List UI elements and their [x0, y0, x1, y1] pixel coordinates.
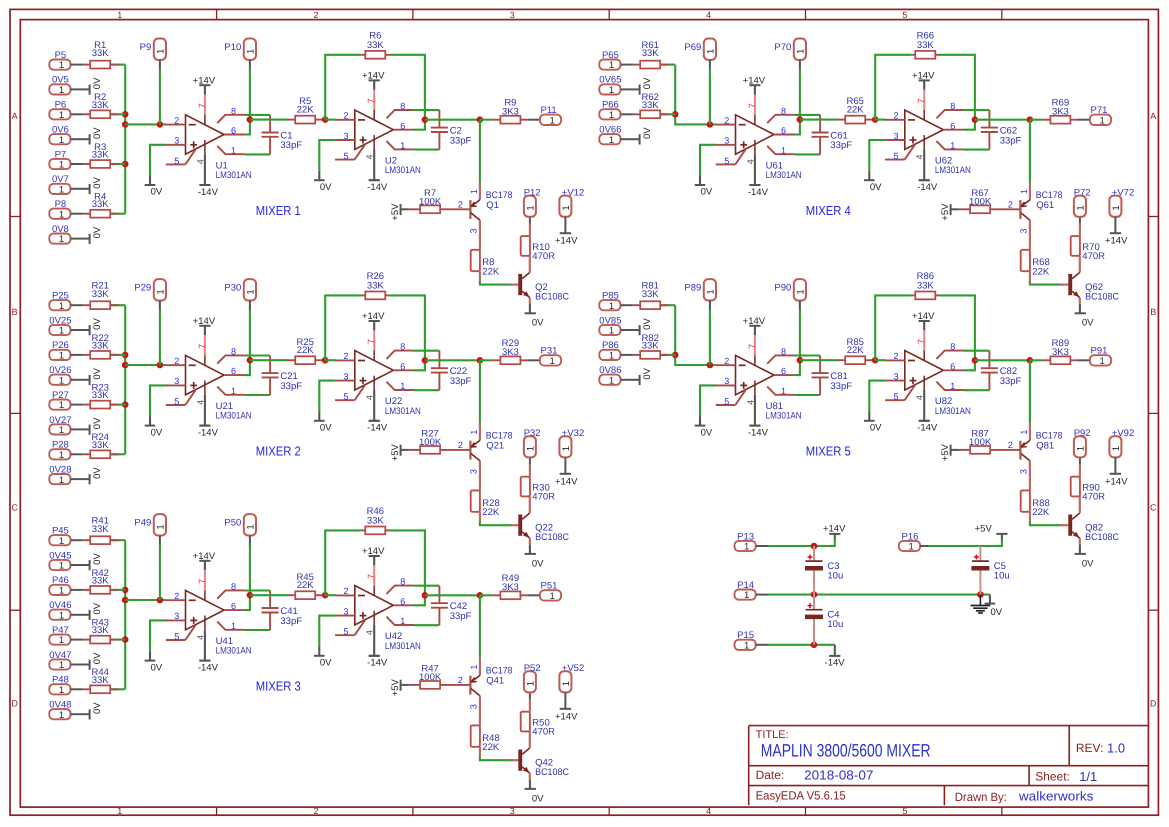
svg-text:P45: P45 [52, 526, 69, 537]
svg-text:0V: 0V [151, 427, 163, 438]
svg-text:1: 1 [155, 524, 166, 529]
svg-text:5: 5 [893, 151, 898, 161]
svg-text:1: 1 [117, 10, 122, 20]
svg-text:P72: P72 [1074, 187, 1091, 198]
svg-text:P90: P90 [774, 283, 791, 294]
svg-text:0V8: 0V8 [52, 224, 69, 235]
svg-text:MAPLIN 3800/5600 MIXER: MAPLIN 3800/5600 MIXER [761, 741, 931, 761]
svg-text:-14V: -14V [917, 423, 938, 434]
svg-text:7: 7 [916, 339, 926, 344]
svg-text:0V7: 0V7 [52, 174, 69, 185]
svg-text:2: 2 [458, 440, 463, 450]
svg-text:+V92: +V92 [1112, 428, 1134, 439]
svg-text:2: 2 [343, 111, 348, 121]
svg-text:1: 1 [59, 326, 64, 337]
svg-text:1: 1 [59, 561, 64, 572]
svg-text:22K: 22K [1032, 266, 1050, 277]
svg-text:22K: 22K [482, 742, 500, 753]
svg-text:1: 1 [609, 375, 614, 386]
svg-text:3K3: 3K3 [1052, 347, 1069, 358]
svg-text:0V: 0V [870, 423, 882, 434]
svg-text:3: 3 [469, 469, 479, 474]
svg-text:2: 2 [724, 356, 729, 366]
svg-text:LM301AN: LM301AN [385, 406, 421, 417]
svg-text:P11: P11 [541, 105, 557, 116]
svg-text:4: 4 [706, 10, 711, 20]
svg-text:1: 1 [1075, 205, 1086, 210]
svg-text:33pF: 33pF [280, 140, 302, 151]
svg-text:1: 1 [59, 610, 64, 621]
svg-text:BC108C: BC108C [1085, 291, 1119, 302]
svg-text:0V: 0V [92, 176, 103, 188]
svg-text:2: 2 [893, 111, 898, 121]
svg-text:1: 1 [561, 446, 572, 451]
svg-text:P91: P91 [1091, 346, 1108, 357]
svg-text:2: 2 [313, 10, 318, 20]
svg-text:+14V: +14V [555, 476, 578, 487]
svg-text:0V: 0V [870, 182, 882, 193]
svg-text:+14V: +14V [362, 311, 385, 322]
svg-text:1: 1 [59, 135, 64, 146]
svg-text:LM301AN: LM301AN [766, 170, 802, 181]
svg-text:P92: P92 [1074, 428, 1091, 439]
svg-text:2018-08-07: 2018-08-07 [804, 768, 873, 783]
svg-text:33K: 33K [92, 150, 110, 161]
svg-text:1: 1 [744, 590, 749, 601]
svg-text:0V46: 0V46 [49, 600, 71, 611]
svg-text:33pF: 33pF [450, 135, 472, 146]
svg-text:P86: P86 [602, 340, 619, 351]
svg-text:33K: 33K [92, 440, 110, 451]
svg-text:22K: 22K [482, 266, 500, 277]
svg-text:33K: 33K [92, 625, 110, 636]
svg-text:0V: 0V [92, 77, 103, 89]
svg-text:33K: 33K [92, 390, 110, 401]
svg-text:3: 3 [174, 611, 179, 621]
svg-text:100K: 100K [419, 196, 442, 207]
svg-text:1: 1 [549, 115, 554, 126]
svg-text:8: 8 [400, 342, 405, 352]
svg-text:8: 8 [400, 101, 405, 111]
svg-text:BC108C: BC108C [535, 291, 569, 302]
svg-text:3K3: 3K3 [502, 347, 519, 358]
svg-text:0V27: 0V27 [49, 415, 71, 426]
svg-text:Q21: Q21 [486, 441, 504, 452]
svg-text:1: 1 [245, 49, 256, 54]
svg-text:P30: P30 [224, 283, 241, 294]
svg-text:22K: 22K [1032, 507, 1050, 518]
svg-text:+14V: +14V [193, 551, 216, 562]
svg-text:1: 1 [155, 49, 166, 54]
svg-text:33pF: 33pF [450, 611, 472, 622]
svg-text:1: 1 [59, 450, 64, 461]
svg-text:Q41: Q41 [486, 676, 504, 687]
svg-text:1: 1 [245, 524, 256, 529]
svg-text:-14V: -14V [198, 427, 219, 438]
svg-text:Q1: Q1 [486, 200, 499, 211]
svg-text:0V: 0V [532, 318, 544, 329]
svg-text:0V: 0V [320, 658, 332, 669]
svg-text:4: 4 [706, 806, 711, 816]
svg-text:5: 5 [343, 392, 348, 402]
svg-text:100K: 100K [419, 437, 442, 448]
svg-text:P5: P5 [55, 50, 67, 61]
svg-text:1: 1 [59, 85, 64, 96]
svg-text:LM301AN: LM301AN [216, 411, 252, 422]
svg-text:5: 5 [902, 806, 907, 816]
svg-text:470R: 470R [1082, 492, 1105, 503]
svg-text:3K3: 3K3 [1052, 106, 1069, 117]
svg-text:B: B [12, 307, 18, 317]
svg-text:7: 7 [366, 339, 376, 344]
svg-text:0V: 0V [701, 187, 713, 198]
svg-text:1: 1 [744, 640, 749, 651]
svg-text:1: 1 [117, 806, 122, 816]
svg-text:3: 3 [510, 806, 515, 816]
svg-text:2: 2 [458, 675, 463, 685]
svg-text:MIXER 1: MIXER 1 [256, 203, 301, 218]
svg-text:1: 1 [155, 289, 166, 294]
svg-text:33K: 33K [92, 199, 110, 210]
svg-text:100K: 100K [969, 437, 992, 448]
svg-text:LM301AN: LM301AN [935, 406, 971, 417]
svg-text:LM301AN: LM301AN [935, 165, 971, 176]
svg-text:1: 1 [59, 160, 64, 171]
svg-text:1: 1 [59, 301, 64, 312]
svg-text:A: A [12, 111, 18, 121]
svg-text:33K: 33K [642, 100, 660, 111]
svg-text:7: 7 [366, 574, 376, 579]
svg-text:1: 1 [59, 351, 64, 362]
svg-text:6: 6 [231, 126, 236, 136]
svg-text:0V: 0V [642, 77, 653, 89]
svg-text:P65: P65 [602, 50, 619, 61]
svg-text:P12: P12 [524, 187, 541, 198]
svg-text:1: 1 [59, 536, 64, 547]
svg-text:3: 3 [469, 704, 479, 709]
svg-text:7: 7 [747, 103, 757, 108]
svg-text:-14V: -14V [748, 187, 769, 198]
svg-text:8: 8 [231, 582, 236, 592]
svg-text:470R: 470R [532, 251, 555, 262]
svg-text:1: 1 [400, 616, 405, 626]
svg-text:P28: P28 [52, 440, 69, 451]
svg-text:+14V: +14V [193, 75, 216, 86]
svg-text:1: 1 [469, 665, 479, 670]
svg-text:0V: 0V [532, 793, 544, 804]
svg-text:7: 7 [197, 103, 207, 108]
svg-text:22K: 22K [847, 345, 865, 356]
svg-text:1: 1 [245, 289, 256, 294]
svg-text:33K: 33K [367, 281, 385, 292]
svg-text:1: 1 [525, 681, 536, 686]
svg-text:33K: 33K [642, 289, 660, 300]
svg-text:+V72: +V72 [1112, 187, 1134, 198]
svg-text:2: 2 [1008, 199, 1013, 209]
svg-text:-14V: -14V [917, 182, 938, 193]
svg-text:P7: P7 [55, 149, 67, 160]
svg-text:-14V: -14V [825, 658, 846, 669]
svg-text:6: 6 [950, 121, 955, 131]
svg-text:1: 1 [609, 135, 614, 146]
svg-text:MIXER 3: MIXER 3 [256, 679, 301, 694]
svg-text:1: 1 [469, 189, 479, 194]
svg-text:8: 8 [781, 347, 786, 357]
svg-text:-14V: -14V [198, 662, 219, 673]
svg-text:1: 1 [400, 141, 405, 151]
svg-text:22K: 22K [847, 105, 865, 116]
svg-text:1: 1 [525, 205, 536, 210]
svg-text:P50: P50 [224, 518, 241, 529]
svg-text:470R: 470R [1082, 251, 1105, 262]
svg-text:8: 8 [950, 342, 955, 352]
svg-text:33pF: 33pF [830, 381, 852, 392]
svg-text:6: 6 [781, 366, 786, 376]
svg-text:+5V: +5V [390, 678, 401, 696]
svg-text:1: 1 [469, 430, 479, 435]
svg-text:+5V: +5V [940, 203, 951, 221]
svg-text:33K: 33K [92, 575, 110, 586]
svg-text:1/1: 1/1 [1079, 769, 1097, 784]
svg-text:8: 8 [950, 101, 955, 111]
svg-text:1: 1 [561, 681, 572, 686]
svg-text:33pF: 33pF [280, 381, 302, 392]
svg-text:2: 2 [343, 586, 348, 596]
svg-text:33pF: 33pF [1000, 135, 1022, 146]
svg-text:2: 2 [893, 351, 898, 361]
svg-text:0V47: 0V47 [49, 650, 71, 661]
svg-text:2: 2 [343, 351, 348, 361]
svg-text:C: C [11, 503, 18, 513]
svg-text:22K: 22K [297, 580, 315, 591]
svg-text:22K: 22K [482, 507, 500, 518]
svg-text:1: 1 [549, 591, 554, 602]
svg-text:3: 3 [724, 136, 729, 146]
svg-text:1: 1 [59, 425, 64, 436]
svg-text:8: 8 [231, 347, 236, 357]
svg-text:6: 6 [400, 361, 405, 371]
svg-text:MIXER 5: MIXER 5 [806, 444, 851, 459]
svg-text:1: 1 [59, 375, 64, 386]
svg-text:6: 6 [950, 361, 955, 371]
svg-text:-14V: -14V [367, 182, 388, 193]
svg-text:2: 2 [458, 199, 463, 209]
svg-text:P14: P14 [737, 580, 754, 591]
svg-text:1: 1 [609, 85, 614, 96]
svg-text:33pF: 33pF [1000, 376, 1022, 387]
svg-text:1: 1 [59, 234, 64, 245]
svg-text:2: 2 [313, 806, 318, 816]
svg-text:1: 1 [1099, 115, 1104, 126]
svg-text:0V: 0V [92, 702, 103, 714]
svg-text:1: 1 [400, 381, 405, 391]
svg-text:0V: 0V [92, 467, 103, 479]
svg-text:0V: 0V [642, 127, 653, 139]
svg-text:0V: 0V [92, 553, 103, 565]
svg-text:6: 6 [231, 601, 236, 611]
svg-text:7: 7 [747, 344, 757, 349]
svg-text:Q61: Q61 [1036, 200, 1054, 211]
svg-text:2: 2 [174, 591, 179, 601]
svg-text:5: 5 [724, 397, 729, 407]
svg-text:BC108C: BC108C [535, 767, 569, 778]
svg-text:-14V: -14V [367, 423, 388, 434]
svg-text:+14V: +14V [193, 316, 216, 327]
svg-text:5: 5 [174, 397, 179, 407]
svg-text:1: 1 [609, 351, 614, 362]
svg-text:+14V: +14V [743, 316, 766, 327]
svg-text:3: 3 [343, 606, 348, 616]
svg-text:P48: P48 [52, 675, 69, 686]
svg-text:0V66: 0V66 [599, 125, 621, 136]
svg-text:2: 2 [174, 115, 179, 125]
svg-text:+V12: +V12 [562, 187, 584, 198]
svg-text:5: 5 [893, 392, 898, 402]
svg-text:+14V: +14V [912, 71, 935, 82]
svg-text:1: 1 [59, 685, 64, 696]
svg-text:470R: 470R [532, 727, 555, 738]
svg-text:+14V: +14V [743, 75, 766, 86]
svg-text:33K: 33K [917, 40, 935, 51]
svg-text:0V: 0V [320, 182, 332, 193]
svg-text:MIXER 4: MIXER 4 [806, 203, 851, 218]
svg-text:P47: P47 [52, 625, 69, 636]
svg-text:1: 1 [705, 49, 716, 54]
svg-text:walkerworks: walkerworks [1018, 788, 1094, 803]
svg-text:1: 1 [950, 381, 955, 391]
svg-text:1: 1 [609, 60, 614, 71]
svg-text:EasyEDA V5.6.15: EasyEDA V5.6.15 [756, 789, 846, 803]
svg-text:Drawn By:: Drawn By: [955, 790, 1007, 804]
svg-text:1: 1 [59, 110, 64, 121]
svg-text:0V: 0V [92, 367, 103, 379]
svg-text:5: 5 [174, 632, 179, 642]
svg-text:0V65: 0V65 [599, 75, 621, 86]
svg-text:1: 1 [609, 326, 614, 337]
svg-text:P89: P89 [684, 283, 701, 294]
svg-text:0V: 0V [1082, 558, 1094, 569]
svg-text:B: B [1150, 307, 1156, 317]
svg-text:BC108C: BC108C [535, 532, 569, 543]
svg-text:0V: 0V [92, 226, 103, 238]
svg-text:0V: 0V [320, 423, 332, 434]
svg-text:470R: 470R [532, 492, 555, 503]
svg-text:33K: 33K [642, 48, 660, 59]
svg-text:0V: 0V [642, 318, 653, 330]
svg-text:+V32: +V32 [562, 428, 584, 439]
svg-text:3: 3 [724, 376, 729, 386]
svg-text:7: 7 [366, 98, 376, 103]
svg-text:0V: 0V [151, 187, 163, 198]
svg-text:0V86: 0V86 [599, 365, 621, 376]
svg-text:0V6: 0V6 [52, 125, 69, 136]
svg-text:P6: P6 [55, 100, 67, 111]
svg-text:3: 3 [469, 228, 479, 233]
svg-text:1: 1 [795, 289, 806, 294]
svg-text:3: 3 [343, 371, 348, 381]
svg-text:+14V: +14V [1105, 476, 1128, 487]
svg-text:1: 1 [1111, 205, 1122, 210]
svg-text:P27: P27 [52, 390, 69, 401]
svg-text:P85: P85 [602, 291, 619, 302]
svg-text:LM301AN: LM301AN [385, 165, 421, 176]
svg-text:TITLE:: TITLE: [756, 729, 789, 741]
svg-text:1: 1 [1075, 446, 1086, 451]
svg-text:1: 1 [609, 110, 614, 121]
svg-text:D: D [1150, 699, 1157, 709]
svg-text:1: 1 [231, 145, 236, 155]
svg-text:3: 3 [893, 371, 898, 381]
svg-text:1: 1 [59, 209, 64, 220]
svg-text:+14V: +14V [912, 311, 935, 322]
svg-text:P10: P10 [224, 42, 241, 53]
svg-text:1: 1 [59, 60, 64, 71]
svg-text:3: 3 [1019, 228, 1029, 233]
svg-text:5: 5 [902, 10, 907, 20]
svg-text:P46: P46 [52, 575, 69, 586]
svg-text:P51: P51 [541, 581, 558, 592]
svg-text:6: 6 [400, 121, 405, 131]
svg-text:3: 3 [893, 131, 898, 141]
svg-text:10u: 10u [827, 570, 843, 581]
svg-text:LM301AN: LM301AN [385, 641, 421, 652]
svg-text:100K: 100K [419, 672, 442, 683]
svg-text:33K: 33K [642, 340, 660, 351]
svg-text:33K: 33K [92, 100, 110, 111]
svg-text:8: 8 [400, 577, 405, 587]
svg-text:BC108C: BC108C [1085, 532, 1119, 543]
svg-text:LM301AN: LM301AN [216, 646, 252, 657]
svg-text:2: 2 [1008, 440, 1013, 450]
svg-text:1: 1 [561, 205, 572, 210]
svg-text:+5V: +5V [975, 524, 993, 535]
svg-text:3K3: 3K3 [502, 106, 519, 117]
svg-text:0V: 0V [92, 318, 103, 330]
svg-text:1: 1 [795, 49, 806, 54]
svg-text:3: 3 [174, 376, 179, 386]
svg-text:33K: 33K [367, 40, 385, 51]
svg-text:1: 1 [231, 386, 236, 396]
svg-text:3: 3 [174, 136, 179, 146]
svg-text:1: 1 [59, 660, 64, 671]
svg-text:0V: 0V [701, 427, 713, 438]
svg-text:LM301AN: LM301AN [766, 411, 802, 422]
svg-text:P70: P70 [774, 42, 791, 53]
svg-text:P71: P71 [1091, 105, 1108, 116]
svg-text:0V: 0V [92, 417, 103, 429]
svg-text:33pF: 33pF [830, 140, 852, 151]
svg-text:5: 5 [343, 627, 348, 637]
svg-text:2: 2 [724, 115, 729, 125]
svg-text:1: 1 [705, 289, 716, 294]
svg-text:7: 7 [197, 344, 207, 349]
svg-text:P29: P29 [134, 283, 151, 294]
svg-text:1: 1 [59, 475, 64, 486]
svg-text:5: 5 [174, 156, 179, 166]
svg-text:3K3: 3K3 [502, 582, 519, 593]
svg-text:0V: 0V [1082, 318, 1094, 329]
svg-text:+14V: +14V [823, 524, 846, 535]
svg-text:0V: 0V [92, 652, 103, 664]
svg-text:7: 7 [916, 98, 926, 103]
svg-text:0V25: 0V25 [49, 315, 71, 326]
svg-text:+14V: +14V [555, 236, 578, 247]
svg-text:33K: 33K [92, 524, 110, 535]
svg-text:+5V: +5V [940, 443, 951, 461]
svg-text:REV:: REV: [1076, 741, 1104, 755]
svg-text:P69: P69 [684, 42, 701, 53]
svg-text:LM301AN: LM301AN [216, 170, 252, 181]
